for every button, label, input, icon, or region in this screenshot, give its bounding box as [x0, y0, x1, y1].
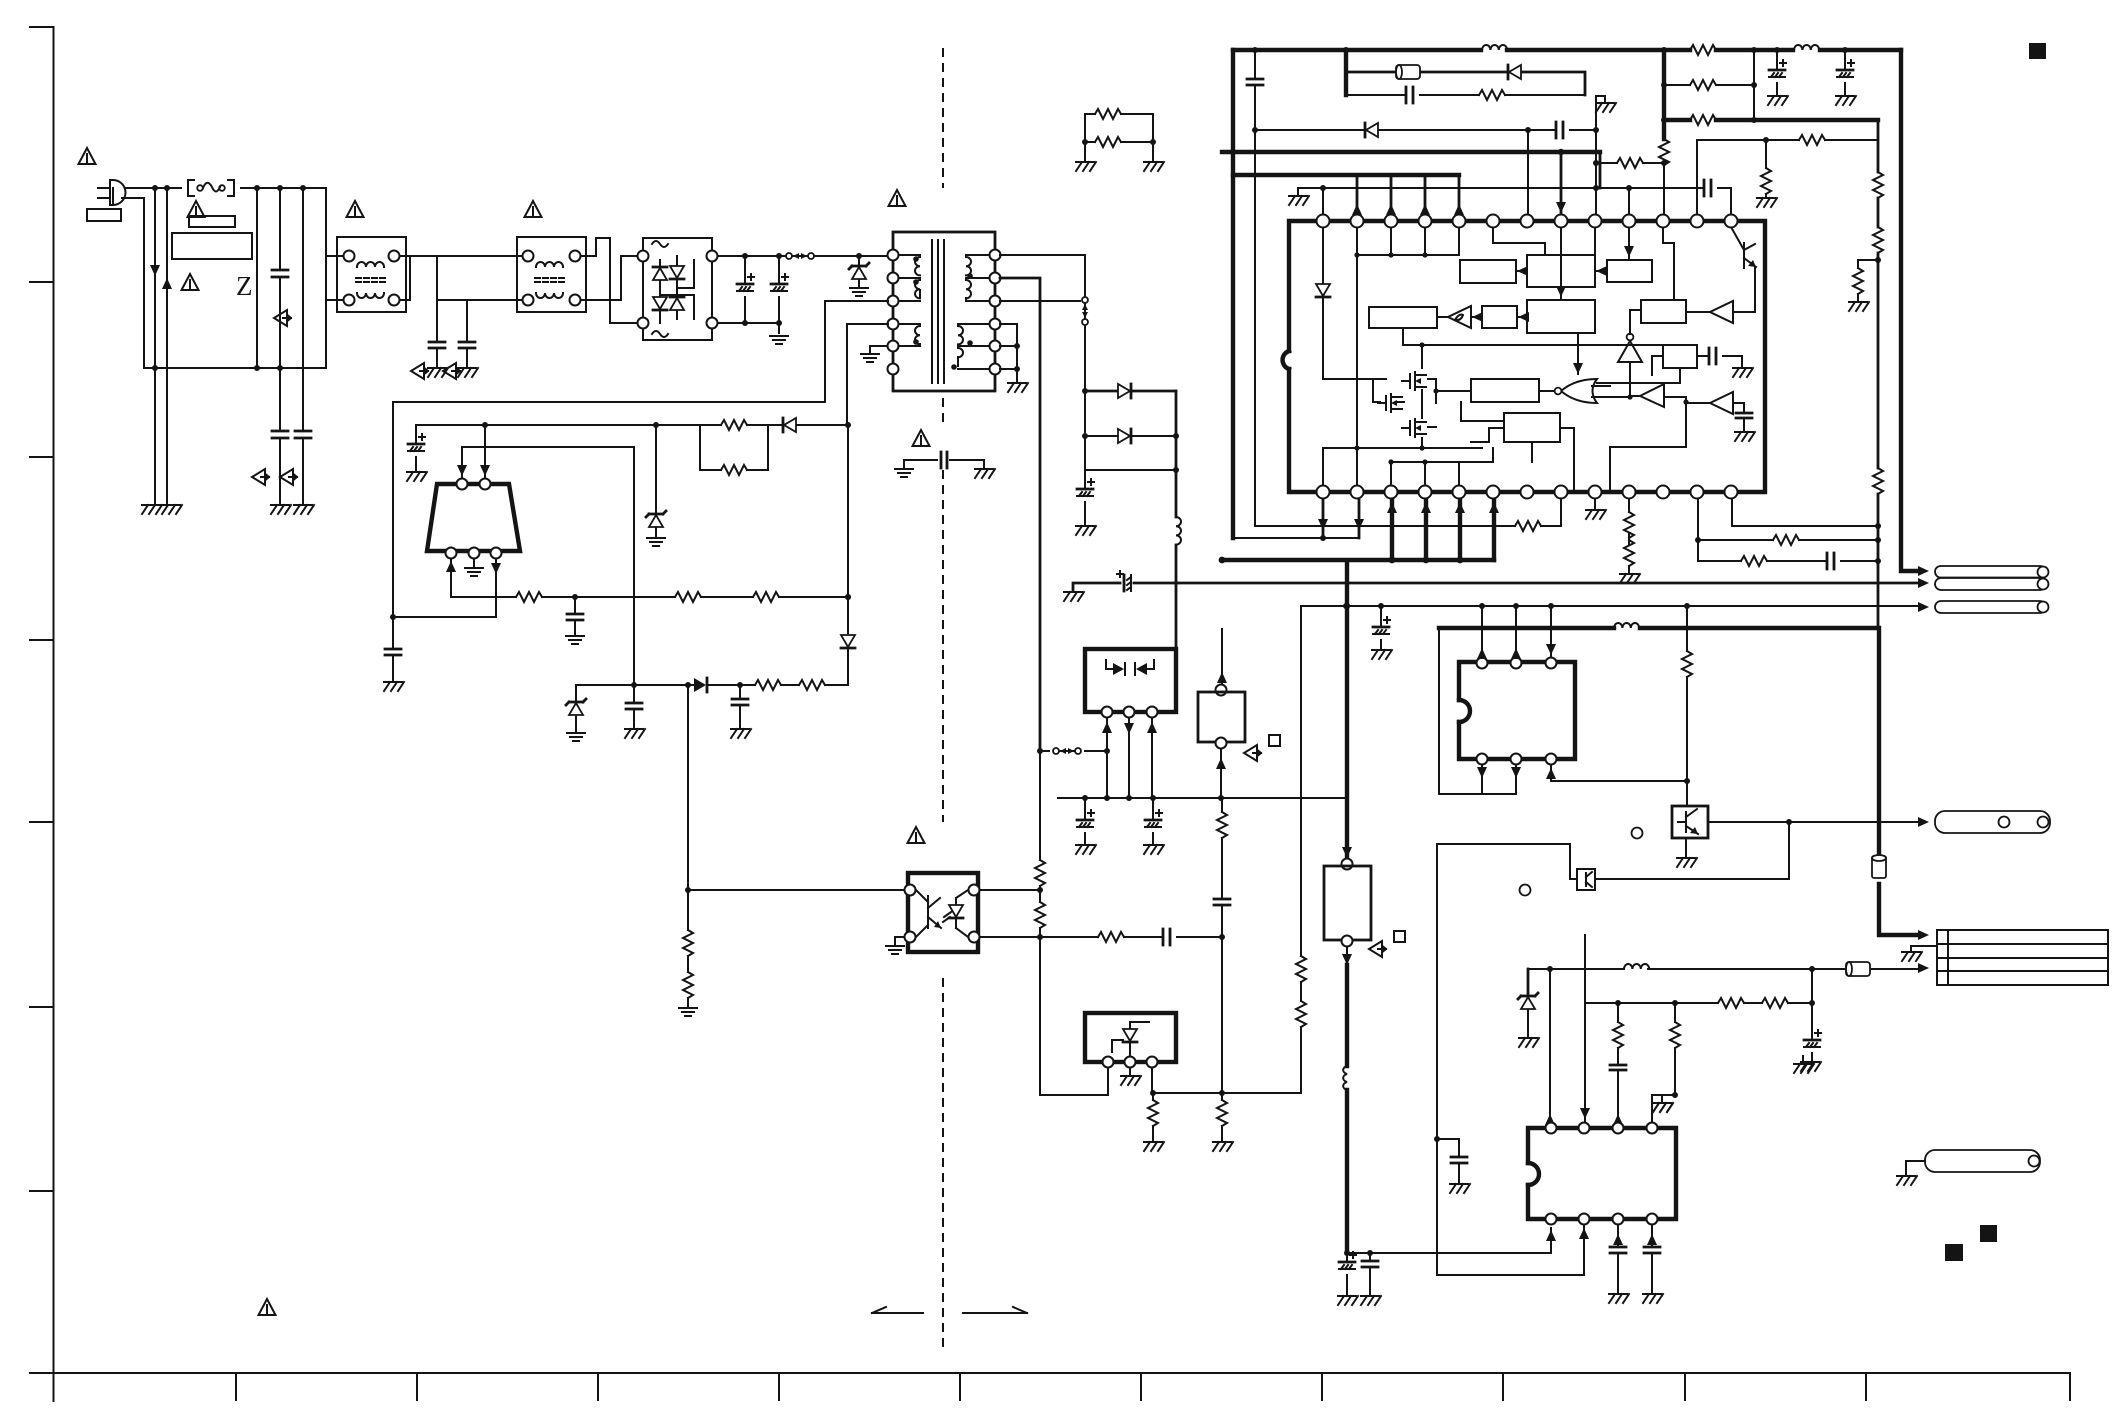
- feedback line y597: [451, 596, 848, 598]
- pin24 net y540 y561: [1698, 492, 1878, 561]
- fuse F1: [188, 180, 234, 196]
- snubber line y95: [1346, 94, 1585, 96]
- NOR in wires: [1592, 386, 1630, 397]
- buffer K: [1640, 384, 1664, 407]
- line y188: [1298, 188, 1731, 215]
- block I: [1607, 260, 1652, 282]
- P2 pin4 chain: [1652, 1003, 1675, 1122]
- cap gnd x575: [574, 597, 576, 634]
- block G: [1504, 413, 1560, 442]
- cap gnd x1370: [1369, 1253, 1371, 1294]
- warning triangles: [79, 148, 96, 164]
- connector CN4 pill: [1925, 1150, 2040, 1172]
- ecap gnd x1381: [1380, 606, 1382, 648]
- thick row y120: [1664, 118, 1878, 122]
- line filter L1: [337, 237, 406, 312]
- optocoupler PC1: [908, 873, 978, 952]
- bottom pin row: [1317, 486, 1737, 498]
- wire x634 down: [633, 447, 635, 686]
- int wire pin6: [1493, 221, 1545, 255]
- block H: [1641, 300, 1686, 323]
- INV chain: [1630, 310, 1641, 397]
- sec diode line y391: [1085, 390, 1176, 393]
- vcc rail x1596: [1596, 96, 1605, 215]
- link x1754: [1753, 50, 1755, 120]
- line y822 to CN2: [1708, 821, 1918, 823]
- block F: [1471, 379, 1539, 402]
- buffer T2: [1710, 301, 1733, 323]
- drive line x1347: [1345, 561, 1349, 858]
- mosfet M1: [1402, 372, 1426, 390]
- ecap gnd x1845: [1844, 50, 1846, 94]
- wire pin3 left: [825, 301, 888, 402]
- line y470: [1085, 436, 1176, 470]
- IC1 pin circles overlay bottom: [1317, 486, 1738, 499]
- P2 pin3 chain: [1617, 1003, 1619, 1122]
- gnd bus y560: [1222, 558, 1494, 562]
- int wire pin9: [1594, 221, 1596, 255]
- wire down x155: [154, 188, 156, 503]
- smoothing ecap C2: [778, 256, 780, 323]
- snubber box left edge: [393, 402, 825, 617]
- block outputs arrows: [1516, 270, 1527, 272]
- IC bottom ext: left return y538: [1233, 537, 1359, 539]
- mark symbols: [274, 310, 291, 326]
- bottom rail to gnd: [718, 323, 779, 333]
- wire to transformer: [814, 255, 887, 257]
- int diode pin1: [1323, 221, 1386, 379]
- IC2 pin wires down: [1107, 718, 1152, 798]
- opto collector wire: [980, 889, 1040, 891]
- F left vert: [1461, 402, 1504, 442]
- ecap gnd x1085: [1084, 470, 1086, 524]
- connector CN2 pill: [1935, 811, 2050, 833]
- opto feed wire x688: [687, 685, 689, 1006]
- start cap x1255: [1254, 50, 1256, 526]
- connector CN1 wire: [1073, 583, 1918, 590]
- parallel resistor loop: [700, 425, 768, 470]
- smoothing ecap C1: [744, 256, 746, 323]
- capacitor line x303: [302, 188, 304, 503]
- primary winding: [899, 255, 920, 301]
- P2 pin2 feed: [1584, 935, 1586, 1122]
- AC plug P1: [98, 180, 126, 205]
- photo transistor Q2: [1672, 806, 1708, 838]
- K buffer wires: [1630, 396, 1710, 403]
- N block cap gnd: [1697, 356, 1742, 366]
- wire x485 into reg: [484, 425, 486, 478]
- block B: [1527, 255, 1595, 287]
- int wire pin11: [1663, 221, 1674, 300]
- y1003 net: [1585, 1002, 1812, 1004]
- thick bus y175: [1233, 173, 1459, 177]
- drive rail x1222 low: [1221, 798, 1223, 1140]
- regulator IC1 trapezoid: [427, 484, 520, 551]
- wire down x167: [166, 188, 168, 503]
- zener gnd x576: [575, 685, 577, 731]
- mosfet interconnect: [1373, 345, 1471, 448]
- opto gnd: [895, 937, 904, 944]
- drive bottom line y1253: [1347, 1228, 1551, 1253]
- feedback line y140: [1697, 140, 1878, 215]
- enclosure left edge: [1437, 844, 1584, 1275]
- IC5 top pin wires: [1482, 606, 1551, 657]
- top pin row: [1317, 215, 1737, 227]
- gate riser x1561: [1560, 152, 1563, 215]
- deflection feed cylinder: [1812, 968, 1918, 970]
- IC outer right rail to connector: [1901, 50, 1918, 571]
- opto emitter wire y937: [980, 936, 1222, 938]
- isolation dashed line: [942, 48, 944, 1348]
- line filter L2: [517, 237, 586, 312]
- IC1 pin circles overlay top: [1317, 215, 1738, 228]
- int wires pins top: [1357, 221, 1459, 448]
- IC5 bottom wires: [1439, 765, 1516, 794]
- cap gnd x393: [392, 617, 394, 680]
- buffer T1: [1448, 306, 1471, 328]
- T2 to H: [1686, 311, 1753, 313]
- wire pin4 left: [847, 324, 888, 425]
- IC outer left rail: [1231, 50, 1235, 538]
- return wire y368: [144, 367, 326, 369]
- choke rail x1176: [1175, 391, 1178, 649]
- mosfet M2: [1378, 394, 1402, 412]
- crossover wires L2-bridge: [581, 238, 637, 323]
- IC outer top rail: [1233, 48, 1901, 52]
- hot cold arrows: [872, 1312, 923, 1314]
- block A: [1460, 260, 1516, 283]
- resistor row y85: [1664, 84, 1754, 86]
- label box big: [172, 233, 252, 259]
- cap to gnd x467: [466, 300, 468, 366]
- IC6 top right gnd stub: [1661, 1095, 1663, 1101]
- M buffer cap gnd: [1733, 403, 1744, 430]
- pin25 net y526: [1732, 492, 1878, 526]
- audio amp IC5: [1459, 662, 1575, 759]
- buffer M: [1710, 392, 1733, 414]
- NOR gate: [1561, 379, 1597, 403]
- damper resistor pair R90: [1085, 114, 1153, 160]
- ecap gnd x1085b: [1084, 798, 1086, 843]
- int wire pin10: [1628, 221, 1630, 260]
- wire plug to fuse: [125, 187, 181, 189]
- sense line to CN1 pin3: [1301, 605, 1918, 607]
- label box: [87, 209, 121, 221]
- block D: [1482, 306, 1517, 328]
- wire plug lower prong: [122, 198, 144, 368]
- ecap gnd x1153: [1152, 798, 1154, 843]
- resistor y163: [1596, 162, 1664, 164]
- main connector CN3: [1937, 930, 2108, 985]
- label box fuse: [189, 216, 235, 227]
- IC6 bottom caps: [1617, 1225, 1619, 1292]
- varistor Z: [256, 188, 258, 368]
- connector CN1 pills: [1935, 566, 2046, 578]
- block C: [1369, 307, 1437, 328]
- primary gnd stub: [870, 346, 887, 352]
- Y-cap across isolation: [904, 460, 984, 467]
- supply rail y628: [1439, 628, 1918, 935]
- floating pads: [1632, 828, 1643, 839]
- divider rail x1878: [1877, 120, 1880, 628]
- jumper link J2: [1040, 750, 1107, 752]
- x1812 cap gnd: [1811, 969, 1813, 1060]
- block N: [1663, 345, 1697, 368]
- sub regulator box IC3: [1221, 629, 1223, 684]
- jungle IC6: [1528, 1128, 1676, 1219]
- current sense y526 left: [1255, 492, 1561, 526]
- E to NOR: [1577, 333, 1579, 374]
- H to inv top: [1630, 309, 1641, 311]
- block C tap: [1403, 328, 1663, 345]
- ecap gnd x1347: [1346, 1253, 1348, 1294]
- ecap gnd x1777: [1776, 50, 1778, 94]
- jumper link J1: [788, 255, 790, 257]
- secondary rect chain x1085: [1000, 255, 1085, 432]
- wire to opto: [688, 889, 904, 891]
- block E: [1527, 300, 1595, 333]
- mosfet M3: [1402, 419, 1426, 437]
- inverter INV: [1618, 341, 1642, 362]
- enclosure link: [1437, 844, 1577, 879]
- transformer T1: [893, 232, 995, 391]
- CN3 gnd stub: [1911, 946, 1937, 950]
- NOR out to F: [1539, 390, 1554, 392]
- crossover wires L1-L2: [400, 256, 522, 300]
- secondary gnd ties: [1000, 324, 1017, 381]
- sense box Q3: [1577, 869, 1595, 890]
- pin22 divider: [1628, 492, 1630, 572]
- secondary windings: [966, 255, 989, 301]
- border ruler left: [53, 27, 55, 1401]
- zener to gnd x859: [858, 256, 860, 286]
- sec diode line y436: [1085, 435, 1176, 437]
- driver box Q1: [1342, 859, 1353, 870]
- supply line y130: [1255, 129, 1596, 131]
- bridge rectifier D1: [643, 238, 712, 340]
- thyristor block IC4: [1085, 1013, 1176, 1062]
- G wires: [1489, 428, 1574, 492]
- int wire pin8 gate: [1560, 221, 1562, 300]
- gnd mid top: [1802, 1056, 1804, 1062]
- capacitor line x280: [279, 188, 281, 503]
- IC4 line y1093: [1152, 1068, 1301, 1093]
- aux rect wire x848: [847, 425, 849, 685]
- sense divider x1301: [1300, 606, 1302, 1093]
- thick bus y152: [1222, 150, 1600, 154]
- ecap to gnd x416: [415, 425, 417, 470]
- aux winding: [899, 324, 920, 346]
- IC1 main controller box: [1289, 221, 1765, 492]
- pcb pad squares: [2029, 43, 2046, 59]
- int bottom bus: [1323, 448, 1493, 492]
- fusible resistor line y72: [1346, 72, 1585, 95]
- snubber line y425: [416, 424, 848, 426]
- border ruler bottom: [30, 1372, 2070, 1374]
- IC4 gnd stub: [1129, 1068, 1131, 1074]
- reg pin gnd: [473, 559, 475, 566]
- zener x656: [655, 425, 657, 536]
- vcc riser x1528: [1527, 130, 1529, 215]
- regulator block IC2: [1085, 649, 1176, 712]
- pin21 gnd: [1594, 492, 1596, 508]
- bridge output wire: [718, 255, 789, 257]
- wire y447: [462, 447, 634, 478]
- reg pin fb: [450, 559, 452, 597]
- transistor Q int: [1731, 227, 1756, 312]
- cap gnd x740: [739, 685, 741, 727]
- vertical reg line y969: [1527, 969, 1530, 996]
- feed resistor x1687: [1686, 606, 1688, 806]
- feedback rail x1040: [1000, 278, 1040, 751]
- line y685: [576, 684, 848, 686]
- wire y617: [393, 616, 496, 618]
- P2 pin1 feed: [1549, 969, 1551, 1122]
- wire x326: [326, 188, 342, 368]
- wire AC line: [241, 187, 326, 189]
- node dots AC line: [152, 185, 158, 191]
- svg-text:Z: Z: [236, 271, 253, 301]
- reg pin out down: [495, 559, 497, 617]
- cap gnd x634: [633, 685, 635, 727]
- cap gnd x1459: [1437, 1139, 1459, 1182]
- cap to gnd x437: [436, 300, 438, 366]
- low volt rail y798: [1058, 797, 1347, 799]
- line y879: [1595, 822, 1789, 879]
